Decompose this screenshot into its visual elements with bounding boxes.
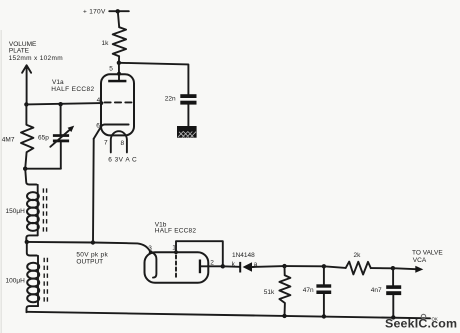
- V1a cathode, pin 6: [94, 122, 129, 139]
- wire junction to diode: [223, 265, 240, 268]
- node anode/grid junction: [221, 264, 225, 268]
- capacitor 22n: [165, 94, 197, 126]
- svg-text:51k: 51k: [264, 289, 275, 296]
- svg-text:47n: 47n: [303, 287, 314, 294]
- wire 51k node to 47n node: [285, 265, 324, 267]
- svg-text:50V pk pk: 50V pk pk: [76, 251, 108, 258]
- node output junction: [25, 240, 29, 244]
- svg-text:1N4148: 1N4148: [232, 252, 255, 259]
- node +170V supply: [83, 8, 129, 15]
- svg-text:OK: OK: [432, 316, 438, 321]
- wire output node to V1b pin 3: [27, 242, 151, 252]
- antenna VOLUME PLATE: [9, 41, 63, 105]
- V1b label: [155, 222, 197, 235]
- wire rail to L1: [25, 169, 36, 185]
- inductor 150uH: [6, 185, 47, 242]
- svg-text:22n: 22n: [165, 96, 176, 103]
- V1b grid pin 1 (dashed): [172, 245, 178, 279]
- V1b anode pin 2: [199, 259, 223, 273]
- svg-text:5: 5: [109, 65, 113, 72]
- ground (hatched block): [177, 126, 197, 138]
- svg-text:6 3V A C: 6 3V A C: [108, 157, 137, 164]
- svg-text:1k: 1k: [102, 40, 110, 47]
- svg-text:4n7: 4n7: [371, 287, 382, 294]
- svg-text:HALF ECC82: HALF ECC82: [155, 227, 197, 234]
- wire R1 to anode node: [118, 56, 120, 63]
- node 51k top: [282, 264, 286, 268]
- wire anode node to pin 5: [118, 63, 120, 74]
- wire supply to R1: [118, 11, 119, 27]
- label 50V pk pk OUTPUT: [76, 251, 108, 265]
- svg-text:VCA: VCA: [413, 257, 427, 264]
- resistor 2k: [346, 252, 371, 275]
- svg-text:7: 7: [104, 139, 108, 146]
- svg-text:PLATE: PLATE: [9, 47, 30, 54]
- node 47n bottom: [322, 314, 326, 318]
- svg-text:3: 3: [148, 245, 152, 252]
- node anode junction: [117, 61, 121, 65]
- svg-text:4M7: 4M7: [2, 136, 15, 143]
- svg-text:OUTPUT: OUTPUT: [76, 259, 103, 266]
- svg-text:HALF ECC82: HALF ECC82: [51, 86, 94, 93]
- svg-text:65p: 65p: [38, 135, 49, 142]
- scan edge artifact: [0, 30, 2, 333]
- wire grid node to pin 4: [26, 103, 101, 104]
- node 65p top: [58, 102, 62, 106]
- wire anode node to C 22n: [119, 63, 188, 94]
- wire 47n node to 2k: [324, 266, 346, 268]
- resistor 51k: [264, 266, 291, 316]
- node cathode junction: [91, 240, 95, 244]
- capacitor 4n7: [371, 268, 401, 317]
- node grid junction: [24, 102, 28, 106]
- svg-text:SeekIC.com: SeekIC.com: [385, 317, 457, 331]
- wire V1a cathode down: [92, 139, 95, 243]
- tube V1a envelope: [101, 74, 134, 135]
- resistor 4M7: [2, 104, 34, 168]
- node 47n top: [322, 264, 326, 268]
- svg-text:+ 170V: + 170V: [83, 8, 106, 15]
- watermark SeekIC.com: [385, 314, 457, 330]
- node 51k bottom: [282, 314, 286, 318]
- svg-text:100μH: 100μH: [6, 278, 26, 285]
- wire grid to anode loop: [176, 241, 223, 266]
- wire 2k to output node: [371, 267, 393, 269]
- diode 1N4148: [232, 252, 258, 272]
- V1a heater pins 7,8: [104, 131, 137, 163]
- node 4n7 bottom: [391, 315, 395, 319]
- svg-text:2k: 2k: [354, 252, 362, 259]
- wire diode to 51k node: [252, 265, 285, 268]
- inductor 100uH: [6, 242, 48, 312]
- V1a grid (dashed), pin 4: [97, 97, 132, 105]
- wire ground rail: [27, 312, 431, 319]
- svg-text:2: 2: [210, 259, 214, 266]
- svg-text:150μH: 150μH: [6, 208, 26, 215]
- output arrow TO VALVE VCA: [393, 249, 443, 272]
- trimmer capacitor 65p: [38, 104, 74, 168]
- node VCA output: [391, 266, 395, 270]
- wire bottom of 4M7/65p: [23, 167, 61, 171]
- resistor 1k: [102, 27, 127, 56]
- svg-text:6: 6: [96, 122, 100, 129]
- svg-text:8: 8: [121, 140, 125, 147]
- svg-text:V1a: V1a: [52, 79, 64, 86]
- V1a anode plate: [108, 74, 126, 82]
- svg-text:TO VALVE: TO VALVE: [412, 249, 443, 256]
- svg-text:152mm x 102mm: 152mm x 102mm: [9, 55, 63, 62]
- tube V1b envelope: [145, 252, 209, 283]
- V1a label: [51, 79, 94, 93]
- V1b cathode pin 3: [148, 245, 156, 278]
- capacitor 47n: [303, 266, 331, 316]
